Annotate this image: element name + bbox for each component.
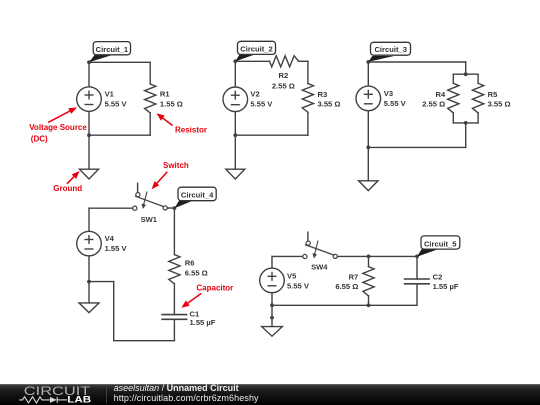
svg-text:2.55 Ω: 2.55 Ω xyxy=(422,100,445,109)
wire V4 top lead xyxy=(88,208,90,231)
wire ground stem circuit 3 xyxy=(367,147,369,180)
node circuit 4 switch xyxy=(173,206,177,210)
svg-text:C2: C2 xyxy=(433,273,443,282)
svg-text:3.55 Ω: 3.55 Ω xyxy=(488,100,511,109)
wire node down to R6 xyxy=(173,208,175,255)
red annotations xyxy=(29,107,233,307)
ground circuit 3 xyxy=(359,181,378,191)
svg-text:R7: R7 xyxy=(349,272,359,281)
ground circuit 1 xyxy=(80,169,99,179)
svg-text:1.55 µF: 1.55 µF xyxy=(190,318,216,327)
capacitor C2 xyxy=(405,279,430,284)
svg-text:Resistor: Resistor xyxy=(175,126,207,135)
footer separator xyxy=(106,387,108,404)
flag Circuit_1 xyxy=(89,55,113,63)
voltage source V2 xyxy=(223,87,248,112)
ground circuit 4 xyxy=(79,303,99,313)
svg-text:SW4: SW4 xyxy=(311,263,328,272)
svg-text:2.55 Ω: 2.55 Ω xyxy=(272,81,295,90)
wire ground stem circuit 4 xyxy=(88,282,90,303)
node circuit 3 parallel bottom xyxy=(464,121,468,125)
capacitor C1 xyxy=(162,315,187,320)
svg-text:Circuit_2: Circuit_2 xyxy=(240,45,273,54)
wire bottom rail circuit 2 xyxy=(235,134,308,136)
wire R3 top lead xyxy=(307,61,309,83)
node circuit 5 R7 top xyxy=(367,255,371,259)
wire V3 bottom lead xyxy=(367,111,369,148)
wire right rail to R1 xyxy=(149,62,151,84)
ground circuit 2 xyxy=(226,169,245,179)
wire top rail left circuit 5 xyxy=(272,255,303,257)
logo waveform xyxy=(19,397,67,403)
svg-text:Circuit_3: Circuit_3 xyxy=(374,45,407,54)
wire V5 top lead xyxy=(271,256,273,268)
svg-text:Circuit_5: Circuit_5 xyxy=(424,239,457,248)
wire switch to node circuit 4 xyxy=(167,207,174,209)
wire V2 top lead xyxy=(234,61,236,87)
svg-text:R1: R1 xyxy=(160,89,170,98)
wire ground stem circuit 5 xyxy=(271,305,273,326)
wire V1 top lead xyxy=(88,62,90,87)
svg-text:6.55 Ω: 6.55 Ω xyxy=(185,269,208,278)
node circuit 5 R7 bottom xyxy=(367,303,371,307)
wire R4 bottom lead xyxy=(452,113,454,123)
circuit name flags xyxy=(89,41,460,256)
wire top rail right circuit 2 xyxy=(299,60,308,62)
svg-text:R2: R2 xyxy=(279,71,289,80)
voltage source V3 xyxy=(356,86,381,111)
wire R4 top lead xyxy=(452,74,454,83)
wire V5 bottom lead xyxy=(271,293,273,306)
svg-text:5.55 V: 5.55 V xyxy=(384,99,407,108)
wire V1 bottom lead xyxy=(88,111,90,135)
wire down to parallel junction xyxy=(465,62,467,74)
node circuit 4 bottom xyxy=(87,280,91,284)
wire V2 bottom lead xyxy=(234,112,236,136)
resistor R3 xyxy=(302,84,313,113)
footer bar xyxy=(0,383,540,405)
wire V4 bottom lead xyxy=(88,256,90,282)
resistor R6 xyxy=(169,255,180,284)
svg-text:R3: R3 xyxy=(318,90,328,99)
resistor R4 xyxy=(448,83,459,113)
svg-text:1.55 V: 1.55 V xyxy=(105,244,128,253)
svg-text:Voltage Source: Voltage Source xyxy=(29,123,87,132)
wire bottom rail circuit 5 xyxy=(272,304,417,306)
svg-text:SW1: SW1 xyxy=(141,215,158,224)
wire ground stem circuit 2 xyxy=(234,135,236,169)
svg-text:5.55 V: 5.55 V xyxy=(287,281,310,290)
svg-text:(DC): (DC) xyxy=(31,134,48,143)
flag Circuit_4 xyxy=(174,200,193,208)
switch SW1 xyxy=(133,183,168,210)
node circuit 1 bottom xyxy=(87,133,91,137)
svg-text:R6: R6 xyxy=(185,259,195,268)
flag Circuit_3 xyxy=(368,56,394,62)
svg-text:6.55 Ω: 6.55 Ω xyxy=(335,282,358,291)
node circuit 5 V5 bottom xyxy=(270,303,274,307)
wire parallel bottom branch xyxy=(453,122,478,124)
wire bottom rail circuit 3 xyxy=(368,146,465,148)
node circuit 3 parallel top xyxy=(464,72,468,76)
node circuit 3 bottom xyxy=(366,146,370,150)
wire left riser circuit 4 xyxy=(113,282,115,341)
wire C2 top lead xyxy=(416,256,418,279)
svg-text:Circuit_1: Circuit_1 xyxy=(96,45,129,54)
svg-text:5.55 V: 5.55 V xyxy=(250,100,273,109)
wire R1 bottom xyxy=(149,113,151,135)
svg-text:V4: V4 xyxy=(105,234,115,243)
svg-text:3.55 Ω: 3.55 Ω xyxy=(318,100,341,109)
ground circuit 5 xyxy=(262,327,283,337)
svg-text:V3: V3 xyxy=(384,89,393,98)
resistor R7 xyxy=(363,267,374,296)
svg-text:http://circuitlab.com/crbr6zm6: http://circuitlab.com/crbr6zm6heshy xyxy=(114,393,259,403)
wire R7 bottom lead xyxy=(368,296,370,305)
wire top rail left circuit 2 xyxy=(235,60,269,62)
voltage source V1 xyxy=(77,87,102,112)
wire R3 bottom lead xyxy=(307,112,309,135)
wire R7 top lead xyxy=(368,257,370,267)
node circuit 2 bottom xyxy=(233,133,237,137)
node circuit 5 label xyxy=(415,255,419,259)
wire top rail circuit 1 xyxy=(89,61,150,63)
svg-text:V2: V2 xyxy=(250,90,259,99)
wire switch to rail circuit 5 xyxy=(337,255,417,257)
wire C2 bottom lead xyxy=(416,284,418,306)
svg-text:Switch: Switch xyxy=(163,161,189,170)
switch SW4 xyxy=(303,232,338,258)
resistor R2 xyxy=(270,56,299,67)
flag Circuit_5 xyxy=(417,249,438,256)
svg-text:Circuit_4: Circuit_4 xyxy=(181,191,214,200)
resistor R5 xyxy=(473,83,484,113)
node circuit 3 top xyxy=(366,60,370,64)
node circuit 2 top xyxy=(233,59,237,63)
svg-text:Capacitor: Capacitor xyxy=(196,283,233,292)
svg-text:V1: V1 xyxy=(105,89,115,98)
wire top rail left circuit 4 xyxy=(89,207,133,209)
wire R5 bottom lead xyxy=(477,113,479,123)
svg-text:1.55 µF: 1.55 µF xyxy=(433,282,459,291)
svg-text:5.55 V: 5.55 V xyxy=(105,99,128,108)
wire ground stem circuit 1 xyxy=(88,135,90,169)
wire bottom rail circuit 4 xyxy=(114,340,175,342)
svg-text:R5: R5 xyxy=(488,90,498,99)
wire down from parallel bottom xyxy=(465,123,467,147)
wire node to riser circuit 4 xyxy=(89,281,114,283)
node circuit 1 top xyxy=(87,60,91,64)
svg-text:V5: V5 xyxy=(287,271,297,280)
resistor R1 xyxy=(145,84,156,113)
svg-text:R4: R4 xyxy=(435,90,445,99)
wire R5 top lead xyxy=(477,74,479,83)
flag Circuit_2 xyxy=(235,54,256,61)
svg-text:1.55 Ω: 1.55 Ω xyxy=(160,99,183,108)
wire parallel top branch xyxy=(453,73,478,75)
svg-text:Ground: Ground xyxy=(53,184,82,193)
node circuit 5 ground xyxy=(270,316,274,320)
wire top rail circuit 3 xyxy=(368,61,465,63)
voltage source V5 xyxy=(260,268,285,293)
svg-text:aseelsultan / Unnamed Circuit: aseelsultan / Unnamed Circuit xyxy=(114,383,239,393)
voltage source V4 xyxy=(77,231,102,256)
wire bottom rail circuit 1 xyxy=(89,134,150,136)
node dots xyxy=(87,59,468,319)
wire R6 to C1 xyxy=(173,284,175,315)
svg-text:LAB: LAB xyxy=(67,394,91,404)
wire V3 top lead xyxy=(367,62,369,86)
wire C1 bottom lead xyxy=(173,319,175,340)
